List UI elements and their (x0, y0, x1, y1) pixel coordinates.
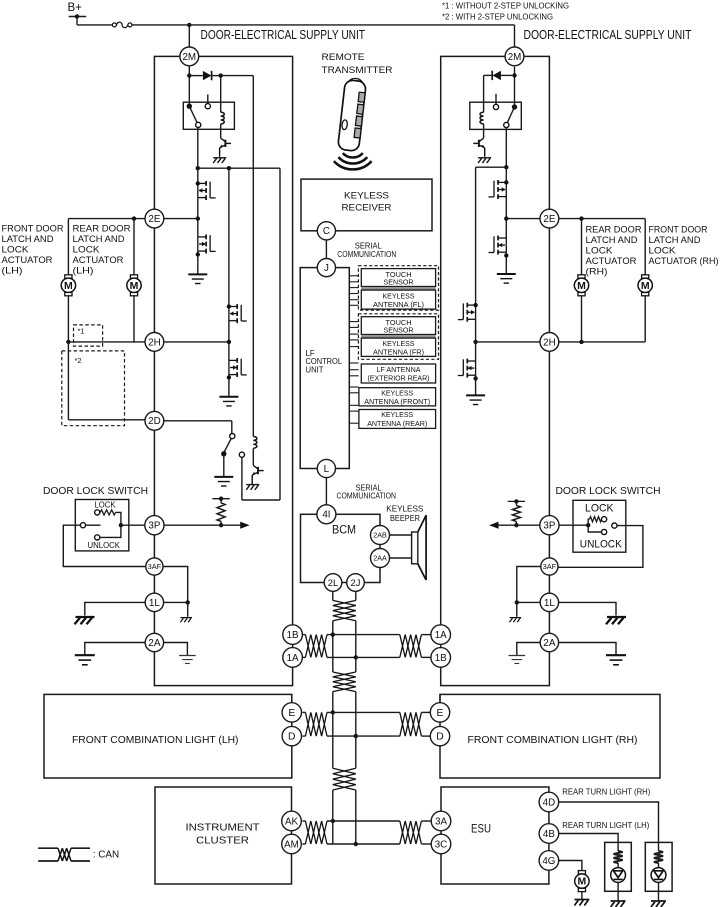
transistor Q3 fet (198, 235, 216, 254)
junction node top (187, 23, 191, 27)
transistor Q9 fet (489, 236, 507, 255)
door-electrical supply unit LH box (154, 56, 292, 685)
wire 2H right to chain (476, 341, 540, 343)
svg-text:ESU: ESU (471, 824, 491, 836)
front combination light RH box (440, 694, 660, 778)
connector 1L right (540, 593, 558, 611)
wire 2A right ground (559, 643, 616, 656)
wire fet7 to 2H right (475, 319, 477, 361)
speaker beeper (412, 532, 418, 564)
wire bulb RH to ground (658, 882, 660, 900)
twisted pair left 1B/1A (305, 635, 327, 658)
sensor stubs (349, 276, 358, 423)
bulb RH (651, 868, 666, 883)
transistor Q8 fet (504, 180, 508, 184)
svg-text:M: M (64, 280, 73, 292)
motor M1 front LH (65, 275, 72, 278)
svg-text:LOCK: LOCK (649, 246, 677, 256)
svg-text:LOCK: LOCK (586, 246, 614, 256)
connector D right (430, 726, 449, 745)
twisted pair right 3A/3C (400, 821, 422, 844)
node lock switch junction (119, 523, 123, 527)
wire rear motor RH drop (581, 219, 583, 275)
connector 2H left (145, 333, 164, 352)
wire 2A left ground (85, 643, 146, 656)
ground below Q6 (246, 485, 259, 490)
wire junction to 3P (121, 524, 145, 526)
svg-text:ACTUATOR: ACTUATOR (586, 256, 637, 266)
door lock switch LH box (75, 500, 129, 551)
rear turn lamp LH box (605, 842, 632, 891)
wire x280 down (279, 168, 281, 500)
connector C (317, 222, 335, 240)
ground 1L left chassis (75, 617, 95, 624)
transistor Q11 fet (458, 359, 476, 378)
svg-text:ANTENNA (FR): ANTENNA (FR) (373, 347, 424, 356)
connector 1L left (145, 593, 163, 611)
svg-text:3P: 3P (543, 521, 555, 532)
wire down to right 2M (514, 25, 516, 48)
node 3P arrow junction right (514, 523, 518, 527)
node lock junction RH (586, 523, 590, 527)
svg-text:REAR DOOR: REAR DOOR (73, 224, 131, 234)
svg-text:ANTENNA (FL): ANTENNA (FL) (373, 300, 424, 309)
transistor Q1 (220, 138, 231, 157)
common contact RH (612, 523, 617, 528)
dashed group FL (358, 266, 438, 310)
wire relay K2 output down (505, 128, 507, 168)
svg-text:M: M (641, 280, 650, 292)
wire can row right E leads (421, 711, 431, 713)
svg-text:4G: 4G (542, 856, 555, 867)
wire fet2 to ground (197, 251, 199, 274)
resistor R1 pullup (220, 499, 222, 503)
svg-text:L: L (324, 464, 330, 475)
ground lamp LH (611, 901, 626, 907)
wire C to J (325, 240, 327, 259)
wire 1L right-left junction (517, 601, 541, 603)
svg-text:COMMUNICATION: COMMUNICATION (337, 492, 397, 501)
svg-text:D: D (288, 732, 296, 743)
svg-text:LOCK: LOCK (73, 245, 101, 255)
twisted pair trunk 3 (333, 768, 356, 790)
wire 3P arrow left unit (164, 524, 240, 526)
connector 2E right (540, 209, 559, 228)
twisted pair trunk 2 (333, 672, 356, 692)
svg-text:DOOR-ELECTRICAL SUPPLY UNIT: DOOR-ELECTRICAL SUPPLY UNIT (524, 27, 692, 42)
connector 3C (431, 834, 451, 854)
transistor Q4 fet (227, 304, 231, 308)
node coil branch junction (219, 73, 223, 77)
svg-text:1L: 1L (544, 598, 556, 609)
node M3 junction 2H (579, 340, 583, 344)
svg-text:REAR TURN LIGHT (RH): REAR TURN LIGHT (RH) (562, 786, 650, 796)
wire 2H to chain (164, 341, 229, 343)
svg-text:LATCH AND: LATCH AND (649, 235, 701, 245)
relay K2 contact common stub (495, 94, 497, 105)
svg-text:2A: 2A (148, 638, 161, 649)
dashed group FR (358, 314, 438, 360)
svg-text:FRONT DOOR: FRONT DOOR (2, 224, 64, 234)
svg-text:B+: B+ (68, 2, 83, 14)
wire 1L right ground (558, 602, 616, 615)
svg-text:UNLOCK: UNLOCK (580, 539, 622, 551)
front combination light LH box (44, 694, 292, 778)
wire fet4 to ground (228, 375, 230, 397)
door-electrical supply unit RH box (441, 56, 550, 685)
wire 3AF right branch (517, 567, 541, 603)
wire 2E to chain (164, 218, 198, 220)
svg-text:1B: 1B (435, 653, 447, 664)
ground chain1 (188, 274, 207, 283)
svg-text:LATCH AND: LATCH AND (586, 235, 638, 245)
connector 2L (324, 574, 342, 592)
svg-text:M: M (578, 876, 587, 888)
coil L1 on x253 (253, 437, 257, 449)
wire 2A right-left ground (517, 643, 541, 656)
wire down to left 2M (188, 25, 190, 47)
fusible link (112, 23, 116, 27)
svg-text:TRANSMITTER: TRANSMITTER (322, 65, 393, 75)
node 2H junction (227, 340, 231, 344)
arrow out right (489, 522, 498, 529)
ground below Q7 (478, 158, 491, 163)
ground chain2 (219, 397, 238, 406)
wire to small ground (187, 602, 189, 616)
wire rear motor LH up (133, 219, 135, 275)
separator bar FL (361, 287, 435, 289)
svg-text:2M: 2M (508, 52, 522, 63)
svg-text:: CAN: : CAN (93, 849, 120, 861)
svg-text:*1: *1 (78, 327, 85, 336)
connector 2E left (145, 209, 164, 228)
ground 2A right-left (508, 656, 525, 664)
svg-text:KEYLESS: KEYLESS (344, 191, 389, 201)
twisted pair trunk 1 (333, 600, 356, 620)
connector 2AA (371, 549, 390, 568)
wire FCL LH stub (291, 694, 293, 702)
svg-text:SENSOR: SENSOR (384, 278, 414, 287)
keyless antenna rear box (359, 410, 436, 429)
node trunk row2 (331, 710, 335, 714)
svg-text:AM: AM (284, 839, 299, 850)
svg-text:ACTUATOR (RH): ACTUATOR (RH) (649, 256, 719, 266)
node junction y168 left (196, 166, 200, 170)
relay K1 contact common stub (207, 94, 209, 103)
svg-text:DOOR LOCK SWITCH: DOOR LOCK SWITCH (556, 486, 661, 497)
connector 2AB (371, 526, 390, 545)
svg-text:2E: 2E (148, 214, 160, 225)
connector 3AF right (541, 558, 558, 575)
lamp RH resistor (658, 842, 660, 851)
connector 4I (317, 505, 336, 524)
transistor Q6 (252, 465, 263, 484)
svg-text:UNLOCK: UNLOCK (88, 540, 121, 550)
wire M1 down to 2H wire (67, 296, 69, 342)
svg-text:ANTENNA (REAR): ANTENNA (REAR) (367, 419, 427, 428)
wire fet1 to 2E (197, 198, 199, 237)
node M1 junction 2H (66, 340, 70, 344)
motor M5 licence/esu (578, 871, 585, 874)
connector 4G (539, 851, 559, 871)
connector 1B left (283, 625, 303, 645)
twisted pair left E/D (305, 712, 327, 736)
wire M2 down to 2H wire (133, 296, 135, 342)
svg-text:UNIT: UNIT (306, 366, 324, 375)
connector 1B right (431, 648, 451, 668)
wire relay output down (197, 128, 199, 169)
wire M4 down (644, 296, 646, 342)
connector AK (282, 811, 302, 831)
wire top rail to right (189, 24, 514, 26)
svg-text:2A: 2A (543, 638, 556, 649)
svg-text:LATCH AND: LATCH AND (2, 234, 54, 244)
legend CAN twisted pair (38, 847, 58, 849)
svg-text:3P: 3P (148, 521, 160, 532)
dashed box *1 (74, 325, 103, 346)
connector 3AF left (146, 558, 163, 575)
motor M2 rear LH (130, 275, 137, 278)
node trunk row1 (331, 632, 335, 636)
wire 2H right to motors (559, 341, 645, 343)
wire 3AF branch right (163, 567, 188, 603)
svg-text:COMMUNICATION: COMMUNICATION (337, 250, 396, 259)
svg-text:ANTENNA (FRONT): ANTENNA (FRONT) (364, 397, 430, 406)
svg-text:2J: 2J (351, 577, 361, 588)
motor M3 rear RH (578, 275, 585, 278)
svg-text:*1 : WITHOUT 2-STEP UNLOCKING: *1 : WITHOUT 2-STEP UNLOCKING (442, 2, 569, 11)
svg-text:LF ANTENNA: LF ANTENNA (377, 365, 421, 374)
switch S1 2-step (230, 434, 235, 439)
connector 3P right (540, 516, 559, 535)
transistor Q10 fet (473, 303, 477, 307)
wire can row AK-3A left leads (302, 820, 305, 822)
connector 1A right (431, 625, 451, 645)
wire 2E to actuators LH (68, 218, 144, 220)
svg-text:LATCH AND: LATCH AND (73, 234, 125, 244)
wire can row 1B-1A left leads (302, 634, 305, 636)
wire 2E right to actuators (559, 218, 645, 220)
svg-text:(LH): (LH) (2, 266, 23, 276)
transistor Q7 (473, 138, 484, 157)
wire trunk rails upper (332, 591, 334, 600)
wire 2A right ground (164, 643, 188, 656)
svg-text:REAR TURN LIGHT (LH): REAR TURN LIGHT (LH) (562, 820, 649, 830)
node rear motor junction 2E (132, 216, 136, 220)
svg-text:DOOR LOCK SWITCH: DOOR LOCK SWITCH (43, 486, 148, 497)
BCM box (301, 514, 381, 582)
ground 1L right chassis (606, 617, 626, 624)
svg-text:D: D (436, 732, 444, 743)
svg-text:ACTUATOR: ACTUATOR (2, 255, 53, 265)
wire horizontal y168 (198, 167, 280, 169)
ground chain3 (497, 274, 516, 283)
keyless receiver box (301, 179, 432, 231)
B+ terminal (69, 16, 87, 18)
wire M3 down (581, 296, 583, 342)
svg-text:M: M (130, 280, 139, 292)
ground 2A far right (606, 655, 626, 665)
svg-text:CLUSTER: CLUSTER (196, 836, 249, 847)
connector E left (282, 703, 301, 722)
svg-text:LOCK: LOCK (95, 500, 116, 510)
svg-text:SERIAL: SERIAL (355, 241, 383, 250)
wire can row right 3A leads (421, 820, 431, 822)
bulb LH (611, 868, 626, 883)
wire 1L left ground (85, 602, 146, 615)
node 2E junction (196, 216, 200, 220)
svg-text:RECEIVER: RECEIVER (342, 203, 392, 213)
keyless antenna FL box (361, 290, 435, 309)
wire fuse to junction (132, 24, 189, 26)
svg-text:3AF: 3AF (543, 562, 557, 571)
wire trunk rails to row1 (332, 621, 334, 658)
node junction y168 mid (227, 166, 231, 170)
wire 4B to lamp LH (559, 834, 618, 843)
connector AM (282, 834, 302, 854)
wire fet chain3 (505, 167, 507, 182)
wire can row 1B to trunk (327, 634, 400, 636)
wire switch blade to ground (223, 454, 225, 477)
wire horizontal y167 right (476, 166, 507, 168)
resistor R3 pullup (515, 501, 517, 505)
wire chain2 from y168 (228, 168, 230, 306)
wire FCL RH stub (439, 694, 441, 702)
relay K2 moving contact (512, 104, 517, 109)
wire common to 3AF (63, 525, 146, 566)
relay K1 coil (220, 76, 222, 113)
svg-text:C: C (323, 226, 330, 237)
svg-text:(RH): (RH) (586, 267, 608, 277)
wire fet6 to ground (505, 252, 507, 274)
pullup rail tick right (508, 500, 525, 502)
svg-text:2E: 2E (543, 214, 555, 225)
lamp LH resistor (617, 842, 619, 851)
wire can row AK to trunk (327, 820, 400, 822)
svg-text:1A: 1A (287, 653, 299, 664)
svg-text:1B: 1B (287, 630, 299, 641)
wire 2AB to speaker (390, 534, 412, 536)
wire B+ horizontal to fuse (77, 24, 112, 26)
wire bulb LH to ground (617, 882, 619, 900)
diode D2 (501, 74, 512, 76)
svg-text:4B: 4B (543, 829, 555, 840)
twisted pair right E/D (400, 712, 422, 736)
node 2H junction right (473, 340, 477, 344)
wire x280 bottom to switch contact (242, 499, 280, 501)
wire coil drop right (483, 75, 485, 112)
svg-text:LOCK: LOCK (2, 245, 30, 255)
ground chain4 (466, 395, 485, 404)
svg-text:AK: AK (285, 816, 299, 827)
node rear motor RH junction (579, 216, 583, 220)
door lock switch RH box (573, 500, 626, 552)
arrow out left (240, 522, 249, 529)
svg-text:BCM: BCM (332, 523, 356, 537)
wire 2M right to relay (514, 67, 516, 107)
wire 2D to switch (164, 420, 232, 422)
svg-text:E: E (437, 708, 444, 719)
svg-text:2AA: 2AA (373, 554, 387, 563)
node 3P arrow junction (219, 523, 223, 527)
separator bar FR (361, 335, 435, 337)
svg-text:REAR DOOR: REAR DOOR (586, 225, 642, 235)
wire common RH to 3AF (558, 526, 643, 568)
svg-text:(LH): (LH) (73, 266, 94, 276)
ground 2A right (179, 656, 196, 664)
wire trunk rails to row2 (332, 692, 334, 737)
connector 3P left (145, 516, 164, 535)
common contact LH (80, 523, 85, 528)
connector 4B (539, 824, 559, 844)
connector 2J (347, 574, 365, 592)
unlock contact LH (95, 535, 100, 540)
wire chain4 top (475, 167, 477, 305)
svg-text:J: J (324, 263, 329, 274)
wire down x253 long (252, 76, 254, 437)
wire M5 to ground (581, 892, 583, 900)
node diode-left junction (187, 73, 191, 77)
keyless antenna FR box (361, 338, 435, 356)
connector J (317, 259, 335, 277)
node 2E junction right (504, 216, 508, 220)
connector 2M left (180, 47, 199, 66)
wire fet3 to 2H (228, 321, 230, 361)
lock contact + resistor R2 (95, 510, 100, 515)
svg-text:FRONT COMBINATION LIGHT (RH): FRONT COMBINATION LIGHT (RH) (468, 735, 638, 746)
relay K1 box (183, 102, 234, 129)
instrument cluster box (155, 787, 292, 884)
wire B+ down (76, 17, 78, 25)
connector D left (282, 726, 301, 745)
diode D1 (192, 75, 203, 77)
wire fet chain1 upper (197, 168, 199, 183)
svg-text:SENSOR: SENSOR (384, 326, 414, 335)
motor M4 front RH (642, 275, 649, 278)
ground 1L small right (509, 618, 521, 623)
touch sensor FL box (361, 269, 435, 287)
wire trunk rails row1-twist2 (332, 657, 334, 672)
svg-text:2L: 2L (328, 577, 338, 588)
wire M1 branch down to 2D (67, 342, 69, 420)
wire can row E-E left leads (302, 711, 305, 713)
connector E right (430, 703, 449, 722)
wire 2H to motors LH (68, 341, 144, 343)
svg-text:DOOR-ELECTRICAL SUPPLY UNIT: DOOR-ELECTRICAL SUPPLY UNIT (201, 27, 366, 42)
svg-text:FRONT DOOR: FRONT DOOR (649, 225, 708, 235)
svg-text:INSTRUMENT: INSTRUMENT (186, 823, 260, 834)
transistor Q2 fet (196, 181, 200, 185)
twisted pair left AK/AM (305, 821, 327, 844)
LF control unit box (300, 268, 349, 469)
node junction y167 right (504, 165, 508, 169)
wire 2AA to speaker (390, 557, 412, 559)
ground below Q1 (213, 158, 226, 163)
wire 3P arrow right unit (499, 524, 540, 526)
svg-text:3AF: 3AF (148, 562, 162, 571)
svg-text:2H: 2H (148, 337, 161, 348)
svg-text:*2: *2 (75, 356, 82, 365)
connector 2A left (145, 633, 163, 651)
svg-text:2D: 2D (148, 416, 161, 427)
relay K2 coil (480, 112, 484, 124)
wire 4D to lamp RH (559, 802, 659, 842)
wire can row E to trunk (327, 711, 400, 713)
node 1L junction (186, 600, 190, 604)
keyless antenna front box (359, 388, 436, 406)
wire fet5 to 2E right (505, 197, 507, 238)
svg-text:M: M (577, 280, 586, 292)
